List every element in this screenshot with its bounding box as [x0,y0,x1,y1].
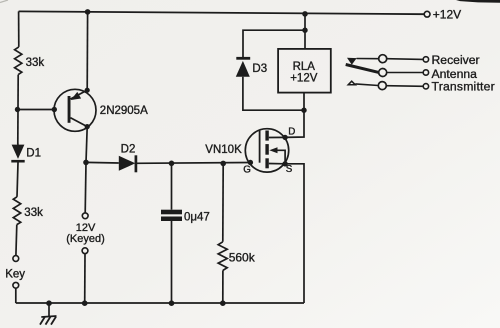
junction collector bottom [85,124,90,129]
junction 560k tap [220,161,226,167]
junction capacitor tap [169,161,175,167]
terminal Transmitter [423,80,495,94]
junction top rail / relay feed [302,11,308,17]
svg-text:Key: Key [5,269,25,281]
junction drain [282,135,287,140]
wire top rail [19,11,425,14]
wire antenna to terminal [387,72,424,74]
wire transmitter to terminal [386,85,423,88]
wire node to D2 [86,161,119,164]
wire cap lower [171,221,173,303]
svg-text:VN10K: VN10K [205,144,242,156]
terminal Key upper [5,256,25,281]
terminal Antenna [423,67,477,81]
terminal 12V (Keyed) lower [82,248,88,254]
wire receiver contact [357,58,379,60]
node receiver pole [379,55,387,63]
junction ground [46,300,52,306]
junction keyed/bottom rail [82,300,88,306]
wire Key to bottom rail [15,288,17,303]
svg-text:560k: 560k [229,250,256,264]
svg-text:+12V: +12V [433,7,461,21]
junction base at transistor [52,107,57,112]
wire D1 anode stub [17,144,19,146]
node antenna pole [379,69,387,77]
capacitor 0u47 [161,210,210,224]
wire 560k upper [222,163,224,241]
terminal Receiver [423,53,479,67]
wire emitter to rail [86,12,88,90]
ground [40,303,57,324]
transistor 2N2905A [54,89,148,131]
svg-text:D2: D2 [121,144,136,156]
wire to Key terminal [15,225,18,256]
terminal Key lower [13,282,19,288]
resistor 560k [218,242,256,271]
wire collector down [86,127,87,163]
wire node to 12V keyed terminal [84,162,87,213]
diode D2 [119,144,136,173]
junction collector node [83,160,89,166]
wire source to bottom rail [285,164,304,303]
wire D1 to lower resistor [17,162,18,196]
relay RLA [278,49,331,93]
junction 560k/bottom rail [220,300,226,306]
wire drain to relay [285,93,304,138]
svg-text:Receiver: Receiver [432,53,480,67]
svg-text:G: G [243,164,251,175]
diode D3 [236,58,267,77]
node transmitter pole [378,82,386,90]
resistor 33k upper [15,47,45,75]
junction emitter top [85,88,90,93]
wire D3 bottom branch [243,77,304,110]
wire left rail middle [17,75,19,144]
junction source [282,161,287,166]
wire relay feed from top rail [304,14,306,49]
junction cap/bottom rail [169,300,175,306]
resistor 33k lower [13,197,43,225]
wire left rail upper [18,11,20,47]
svg-text:0μ47: 0μ47 [184,212,210,224]
wire D3 top branch [243,30,305,58]
terminal +12V [424,7,461,21]
junction D3 bottom / relay [301,108,306,113]
svg-text:RLA: RLA [293,61,316,73]
wire bottom rail [16,302,304,304]
MOSFET VN10K [205,127,295,176]
svg-text:+12V: +12V [290,72,318,84]
junction base tap [15,107,20,112]
wire receiver to terminal [387,58,424,61]
wire D2 to gate [136,162,250,165]
svg-text:D3: D3 [252,63,267,75]
svg-text:33k: 33k [24,207,43,219]
svg-text:D: D [288,127,295,138]
svg-text:2N2905A: 2N2905A [100,105,148,117]
svg-text:(Keyed): (Keyed) [66,233,105,245]
diode D1 [11,145,41,162]
wire cap upper [171,163,173,209]
relay contact NO mark (transmitter) [348,81,355,85]
junction D3 top tap [302,28,307,33]
junction gate [248,160,253,165]
relay armature [346,65,379,73]
svg-text:D1: D1 [26,147,41,159]
wire transmitter contact [355,84,378,86]
scan artifact top-right [0,0,500,3]
svg-text:Transmitter: Transmitter [432,80,495,94]
relay contact NC mark (receiver) [347,58,357,65]
junction top rail / transistor emitter feed [85,9,91,15]
wire keyed lower to bottom rail [84,254,86,303]
svg-text:33k: 33k [26,57,45,69]
wire 560k lower [222,270,224,303]
terminal 12V (Keyed) upper [66,213,105,245]
wire base [18,109,55,111]
